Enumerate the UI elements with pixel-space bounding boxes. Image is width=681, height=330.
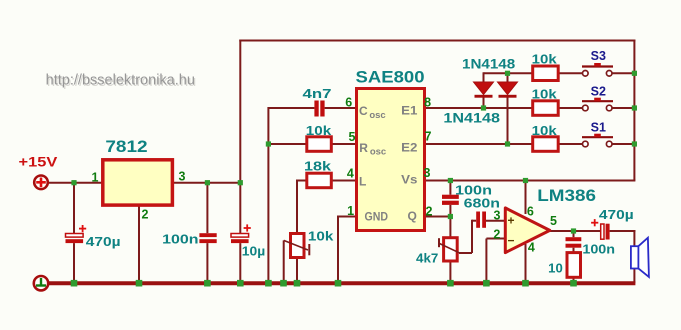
svg-text:7: 7 <box>425 129 432 143</box>
svg-text:1N4148: 1N4148 <box>443 110 500 126</box>
svg-text:GND: GND <box>365 210 389 224</box>
svg-text:10: 10 <box>548 261 563 276</box>
svg-text:L: L <box>359 175 366 189</box>
svg-text:SAE800: SAE800 <box>356 68 425 87</box>
svg-text:E1: E1 <box>401 104 418 118</box>
svg-text:18k: 18k <box>304 159 332 174</box>
svg-text:4k7: 4k7 <box>416 251 438 266</box>
svg-text:10k: 10k <box>308 229 334 244</box>
svg-text:C: C <box>359 104 368 118</box>
svg-text:4: 4 <box>528 240 535 254</box>
svg-text:5: 5 <box>550 214 557 228</box>
svg-text:2: 2 <box>426 204 433 218</box>
svg-text:470µ: 470µ <box>599 207 634 222</box>
svg-text:http://bsselektronika.hu: http://bsselektronika.hu <box>46 72 195 89</box>
svg-text:3: 3 <box>424 166 431 180</box>
svg-text:−: − <box>507 233 514 247</box>
svg-text:Vs: Vs <box>401 173 418 187</box>
svg-text:2: 2 <box>142 208 149 222</box>
svg-text:6: 6 <box>345 95 352 109</box>
svg-text:5: 5 <box>349 130 356 144</box>
svg-text:S3: S3 <box>591 49 606 63</box>
svg-text:470µ: 470µ <box>86 234 121 249</box>
svg-text:4n7: 4n7 <box>303 86 332 101</box>
svg-text:4: 4 <box>347 167 354 181</box>
svg-text:Q: Q <box>408 209 417 223</box>
svg-text:100n: 100n <box>582 242 615 257</box>
svg-text:3: 3 <box>494 209 501 223</box>
svg-text:R: R <box>359 141 368 155</box>
svg-text:LM386: LM386 <box>537 186 596 205</box>
svg-text:100n: 100n <box>455 182 492 197</box>
svg-text:S1: S1 <box>591 120 606 134</box>
svg-text:6: 6 <box>527 205 534 219</box>
svg-text:E2: E2 <box>401 140 418 154</box>
svg-text:1: 1 <box>92 170 99 184</box>
svg-text:S2: S2 <box>591 84 606 98</box>
svg-text:8: 8 <box>424 96 431 110</box>
svg-text:+15V: +15V <box>19 154 58 170</box>
svg-text:10µ: 10µ <box>242 244 265 259</box>
svg-text:3: 3 <box>179 170 186 184</box>
svg-text:2: 2 <box>493 228 500 242</box>
svg-text:1: 1 <box>347 204 354 218</box>
svg-text:1N4148: 1N4148 <box>462 56 515 72</box>
svg-text:100n: 100n <box>162 232 199 247</box>
svg-text:10k: 10k <box>532 123 558 138</box>
svg-text:+: + <box>507 214 514 228</box>
svg-text:7812: 7812 <box>105 137 147 156</box>
svg-text:osc: osc <box>369 110 385 121</box>
svg-text:10k: 10k <box>532 52 558 67</box>
svg-text:10k: 10k <box>532 87 558 102</box>
svg-text:osc: osc <box>370 147 386 158</box>
svg-text:10k: 10k <box>306 123 332 138</box>
